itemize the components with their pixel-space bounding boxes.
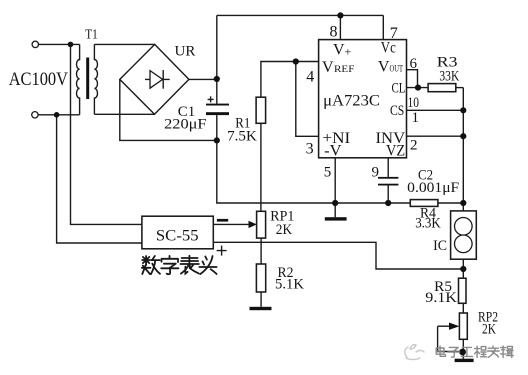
transformer T1 secondary winding	[94, 44, 97, 114]
resistor R3	[428, 84, 456, 92]
watermark glyph zhuan	[488, 346, 500, 357]
junction dot RP2 wiper tie	[459, 349, 466, 356]
svg-text:6: 6	[410, 56, 418, 72]
svg-text:V: V	[322, 59, 334, 76]
transformer T1 core	[86, 58, 89, 100]
svg-text:AC100V: AC100V	[9, 69, 69, 90]
wire top supply rail	[217, 14, 383, 16]
svg-text:9.1K: 9.1K	[425, 290, 457, 306]
svg-text:2K: 2K	[482, 322, 496, 338]
op-amp regulator U1 uA723C body	[319, 40, 407, 158]
wire bridge negative output to bottom rail	[120, 79, 217, 140]
svg-text:CL: CL	[392, 81, 406, 97]
wire right rail vertical	[462, 88, 464, 218]
wire plus rail vertical	[216, 15, 218, 103]
svg-text:V: V	[378, 58, 390, 75]
meter caption glyph zi	[161, 256, 178, 274]
wire bottom terminal to transformer primary	[38, 114, 79, 116]
svg-text:IC: IC	[433, 238, 447, 254]
watermark logo	[405, 345, 424, 360]
svg-text:CS: CS	[390, 103, 404, 119]
svg-text:8: 8	[330, 23, 338, 40]
svg-text:OUT: OUT	[390, 64, 404, 74]
junction dot pin 6 on CL wire	[415, 85, 421, 91]
svg-text:T1: T1	[85, 28, 98, 43]
wire C1 bottom to negative node	[216, 115, 218, 140]
pin 7 lead	[382, 15, 384, 39]
wire R5 bottom to RP2 top	[462, 303, 464, 313]
svg-text:2K: 2K	[276, 222, 293, 238]
svg-text:3.3K: 3.3K	[415, 216, 441, 232]
wire top terminal to transformer primary	[39, 43, 80, 45]
resistor R2	[256, 264, 265, 292]
plus polarity mark	[217, 246, 227, 256]
wire secondary bottom to bridge AC corner	[94, 113, 154, 115]
svg-text:7.5K: 7.5K	[227, 128, 257, 144]
watermark glyph gong	[461, 347, 472, 356]
svg-text:4: 4	[306, 69, 314, 86]
wire common rail down and right to pin 5	[217, 140, 335, 203]
svg-text:1: 1	[412, 110, 420, 126]
digital meter SC-55 body	[142, 216, 213, 249]
junction dot INV on right rail	[460, 133, 466, 139]
junction dot CS on right rail	[460, 107, 466, 113]
wire INV pin to rail	[407, 135, 464, 137]
wire secondary top to bridge AC corner	[94, 43, 154, 45]
wire from node A down to SC-55 upper input	[71, 44, 142, 224]
potentiometer RP2 body	[459, 313, 467, 339]
RP2 wiper arrow	[438, 323, 460, 330]
wire RP1 bottom to R2 top	[260, 238, 262, 264]
watermark glyph ji	[501, 346, 514, 357]
IC current-source body	[451, 211, 477, 259]
wire SC-55 minus to RP1 wiper	[213, 223, 249, 225]
junction dot pin 5 ground	[332, 200, 338, 206]
watermark glyph dian	[436, 346, 445, 356]
wire C2 bottom to common rail	[387, 186, 389, 204]
capacitor C2	[378, 177, 398, 186]
meter caption glyph tou	[199, 256, 216, 274]
wire common rail pin5 to R4	[335, 202, 410, 204]
svg-text:5: 5	[324, 165, 332, 181]
pin 8 lead	[339, 15, 341, 39]
resistor R1	[256, 97, 266, 123]
svg-text:Vc: Vc	[381, 40, 396, 57]
capacitor C1	[206, 96, 229, 115]
pin 9 lead	[387, 158, 389, 177]
svg-text:μA723C: μA723C	[323, 93, 380, 110]
junction dot node C	[460, 200, 466, 206]
resistor R4	[410, 200, 438, 207]
wire R3 right to rail	[456, 87, 464, 89]
svg-text:2: 2	[410, 138, 418, 154]
resistor R5	[459, 278, 467, 303]
svg-text:220μF: 220μF	[164, 117, 206, 133]
wire R4 right to node C	[438, 202, 463, 204]
svg-text:V: V	[333, 41, 345, 58]
wire bridge positive output to plus rail	[189, 78, 217, 80]
potentiometer RP1 body	[257, 211, 266, 238]
junction dot top rail pin 8	[337, 12, 343, 18]
svg-text:VZ: VZ	[386, 142, 405, 159]
svg-text:5.1K: 5.1K	[275, 277, 305, 293]
svg-text:10: 10	[408, 95, 420, 111]
wire R2 bottom lead	[260, 292, 262, 307]
wire RP2 wiper to bottom lead	[438, 326, 464, 351]
junction dot node D	[460, 266, 466, 272]
svg-text:9: 9	[372, 165, 380, 181]
svg-text:-V: -V	[324, 142, 342, 159]
bridge rectifier UR body	[120, 44, 189, 114]
bridge rectifier UR diode symbol	[145, 70, 170, 89]
junction dot C1 bottom	[214, 137, 220, 143]
wire SC-55 plus to node D	[213, 242, 463, 269]
ground below RP2	[455, 359, 474, 362]
wire R1 bottom to RP1 top	[260, 123, 262, 211]
watermark glyph zi	[448, 347, 460, 357]
wire CL pin to R3	[407, 87, 429, 89]
junction dot C2 bottom	[385, 200, 391, 206]
node B junction dot	[54, 112, 60, 118]
minus polarity mark	[217, 219, 228, 222]
transformer T1 primary winding	[77, 44, 80, 114]
terminal J1 top input	[32, 41, 38, 47]
svg-text:3: 3	[306, 141, 314, 158]
ground at pin 5	[325, 203, 347, 221]
pin 5 lead	[334, 158, 336, 203]
meter caption glyph biao	[180, 256, 199, 274]
svg-text:REF: REF	[334, 65, 354, 75]
meter caption glyph shu	[142, 256, 160, 274]
watermark glyph cheng	[475, 346, 487, 357]
wire from node B down to SC-55 lower input	[57, 115, 142, 243]
svg-text:0.001μF: 0.001μF	[407, 180, 459, 196]
terminal J2 bottom input	[32, 112, 38, 118]
junction dot pin 4 wire	[293, 58, 299, 64]
wire node to pin 3	[296, 62, 319, 137]
wire below IC circles to R5	[462, 253, 464, 279]
wire R1 top to pin 4	[261, 62, 319, 98]
node A junction dot	[68, 42, 74, 48]
ground below R2	[250, 307, 272, 310]
wire RP2 bottom lead	[462, 339, 464, 358]
svg-text:UR: UR	[175, 44, 196, 60]
wire CS pin to rail	[407, 109, 464, 111]
svg-text:+: +	[345, 45, 352, 59]
svg-text:33K: 33K	[439, 69, 459, 85]
RP1 wiper arrow	[249, 221, 257, 228]
junction dot plus rail at bridge output	[214, 76, 220, 82]
wire pin 6 to CL node	[407, 70, 418, 88]
svg-text:SC-55: SC-55	[156, 227, 199, 244]
